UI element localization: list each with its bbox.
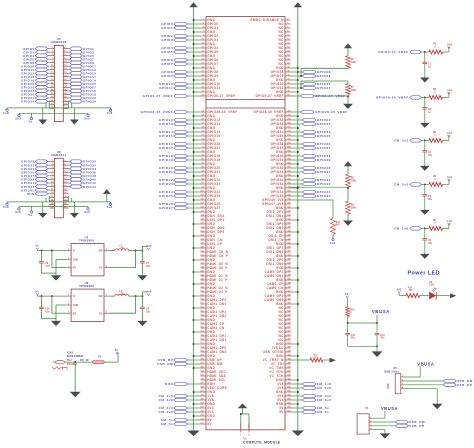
pin VC_TMS U1 right B65 [269, 366, 291, 370]
svg-text:2: 2 [370, 420, 371, 422]
svg-text:1: 1 [402, 375, 403, 377]
pin CAM0_DN1 U1 right B42 [264, 274, 291, 279]
pin GPIO28-45_VREF U1 right B1 [253, 110, 347, 114]
wire SW output node U7 [129, 246, 144, 251]
pin NC U1 right A3 [279, 26, 291, 30]
RC filter CM_1v8 R5 C6 [394, 219, 452, 254]
pin 3V3 U1 right B73 [277, 398, 331, 403]
connector U5 HDR2X18 body [51, 37, 66, 121]
pin GPIO5 U1 left A9 [161, 50, 218, 54]
svg-text:47u: 47u [428, 242, 433, 245]
pin CAM1_CP U1 left B54 [200, 322, 224, 326]
pin DSI1_DP1 U1 right B35 [266, 246, 291, 250]
pin DSI0_DP0 U1 left B31 [200, 230, 224, 234]
pin VDD_CORE U1 left B70 [200, 386, 227, 390]
svg-text:3: 3 [402, 383, 403, 385]
pin GPIO35 U1 right B7 [271, 134, 331, 139]
pin GPIO13 U1 left B4 [159, 122, 220, 126]
pin GPIO31 U1 right A18 [271, 86, 331, 90]
arrow TVDAC output [330, 358, 336, 363]
pin GPIO28-45_VREF U1 left B1 [141, 110, 238, 114]
ground arrow output U8 [137, 319, 147, 326]
svg-text:5v: 5v [29, 213, 33, 217]
svg-text:3: 3 [68, 295, 69, 297]
pin GPIO0-27_VREF U1 left A20 [143, 94, 236, 98]
pin GPIO18 U1 left B12 [159, 154, 220, 158]
svg-text:1v8: 1v8 [107, 205, 113, 209]
wire EN tie U8 [52, 296, 66, 313]
svg-text:GPIO28-45_VREF: GPIO28-45_VREF [376, 96, 409, 100]
pin GND U1 right B40 [276, 266, 299, 271]
svg-text:USB_DM: USB_DM [157, 362, 173, 366]
flag USB_DP JP1 [443, 383, 472, 387]
U1 bottom GND pins [240, 413, 250, 436]
svg-text:47u: 47u [380, 337, 385, 340]
pin row 14 U5 [21, 93, 96, 97]
pin GPIO7 U1 left A12 [161, 62, 218, 66]
svg-text:5: 5 [106, 295, 107, 297]
pin CAM1_DP3 U1 left B48 [200, 298, 226, 302]
svg-text:1v8: 1v8 [3, 205, 9, 209]
svg-text:FB: FB [99, 311, 103, 315]
pin GND U1 left B77 [193, 414, 216, 418]
pin GPIO14 U1 left B6 [159, 130, 220, 134]
pin GND U1 left B5 [193, 126, 216, 130]
svg-text:5: 5 [106, 249, 107, 251]
pin row 2 U5 [23, 50, 94, 55]
pin GND U1 left B50 [193, 306, 216, 310]
svg-text:R13: R13 [350, 309, 355, 311]
pin VC_TDI U1 right B64 [271, 362, 292, 366]
pin row 13 U6 [49, 203, 68, 205]
pin row 6 U5 [21, 64, 96, 68]
pin NC U1 right A11 [279, 58, 291, 62]
svg-text:2: 2 [68, 303, 69, 305]
pin 5V U1 right B76 [279, 410, 329, 415]
pin GPIO30 U1 right A17 [271, 82, 331, 87]
pin EMMC_DISABLE_N U1 right A1 [250, 18, 290, 22]
pin GND U1 left B65 [193, 366, 216, 370]
svg-text:5v: 5v [29, 119, 33, 123]
svg-text:VBUSA: VBUSA [417, 361, 434, 366]
pin row 18 U5 [49, 107, 68, 109]
resistor R10 0 VBUSA [345, 298, 355, 316]
pin GND U1 left B14 [193, 162, 216, 166]
pin GPIO41 U1 right B16 [271, 170, 331, 174]
svg-text:USB_DP: USB_DP [457, 383, 473, 387]
svg-text:2: 2 [248, 435, 249, 437]
svg-text:5v: 5v [345, 292, 349, 296]
pin row 9 U5 [21, 75, 96, 79]
flag USB_DM JP1 [443, 379, 473, 383]
pin NC U1 right A12 [279, 62, 291, 67]
ground arrow CN1 [70, 392, 81, 397]
connector CN1 DCBARREL [52, 351, 89, 370]
wire R7 to GPIO31 [300, 81, 348, 89]
svg-text:47u: 47u [428, 198, 433, 201]
ground arrow C2 [420, 123, 430, 128]
supply 3v3 LED [397, 289, 406, 296]
pin GPIO33 U1 right B4 [271, 122, 331, 126]
pin GND U1 right B25 [276, 206, 299, 210]
connector P1 [357, 407, 373, 434]
svg-text:3v3: 3v3 [84, 210, 90, 214]
svg-text:GPIO23: GPIO23 [159, 182, 173, 186]
svg-text:GPIO15: GPIO15 [159, 134, 173, 138]
pin GPIO42 U1 right B18 [271, 178, 331, 182]
pin HDMI_D0_N U1 left B39 [200, 262, 228, 266]
pin NC U1 right A9 [279, 50, 291, 54]
pin DSI1_CN U1 right B33 [268, 238, 291, 242]
regulator U8 TPS62202 body [66, 281, 109, 321]
pin GPIO6 U1 left A11 [161, 58, 218, 62]
pin CAM1_DN0 U1 left B61 [200, 350, 226, 354]
pin row 3 U6 [21, 167, 96, 171]
RC filter GPIO0-27_VREF R1 C1 [378, 43, 452, 78]
resistor R11 47k pull-up [331, 218, 341, 238]
pin GPIO19 U1 left B13 [159, 158, 220, 162]
pin HDMI_D0_P U1 left B40 [200, 266, 227, 270]
pin GPIO16 U1 left B9 [159, 142, 220, 146]
pin CAM1_DP1 U1 left B57 [200, 334, 226, 338]
pin TVDAC U1 right B60 [271, 346, 291, 350]
pin GND U1 left B53 [193, 318, 216, 322]
svg-text:5v: 5v [115, 348, 119, 352]
supply 5v DC input [115, 348, 119, 354]
pin NC U1 right A2 [279, 22, 291, 27]
pin GPIO28 U1 right A14 [271, 70, 331, 74]
pin GPIO37 U1 right B10 [271, 146, 331, 150]
pin CAM1_DP0 U1 left B60 [200, 346, 226, 350]
wire CN1 ground pin [74, 364, 76, 392]
svg-text:GPIO31: GPIO31 [317, 86, 331, 90]
wire CN1 to F1 [65, 361, 93, 363]
svg-text:GPIO27: GPIO27 [159, 206, 173, 210]
pin NC U1 right A6 [279, 38, 291, 42]
wire U5 pin columns to bus [46, 101, 72, 108]
pin NC U1 right B53 [279, 318, 292, 322]
pin row 15 U5 [21, 96, 96, 100]
pin DSI1_DP1 U1 right B26 [266, 210, 291, 214]
svg-text:1v8: 1v8 [3, 111, 9, 115]
pin GND U1 right A16 [276, 78, 299, 82]
pin 3V3 U1 left B75 [158, 406, 213, 410]
pin 5V U1 right B75 [279, 406, 329, 411]
ground arrow divider R8/R9 [343, 221, 353, 226]
pin GPIO11 U1 left A18 [159, 86, 220, 90]
svg-text:LED: LED [429, 285, 434, 287]
svg-text:5v: 5v [35, 244, 39, 248]
wire JP1 ground [404, 389, 437, 404]
svg-text:1v8: 1v8 [107, 111, 113, 115]
fuse F1 [93, 354, 105, 363]
pin GPIO22 U1 left B18 [159, 178, 220, 182]
regulator U7 TPS62203 body [66, 236, 109, 276]
capacitor C7 10u output U7 [140, 251, 151, 274]
pin HDMI_D2_P U1 left B46 [200, 290, 227, 294]
pin GPIO12 U1 left B3 [159, 118, 220, 122]
svg-text:C11: C11 [351, 335, 356, 337]
pin CAM0_DN0 U1 right B48 [264, 298, 291, 302]
svg-text:RUN: RUN [165, 382, 173, 386]
pin GPIO32 U1 right B3 [271, 118, 331, 122]
pin USB_DP U1 left B63 [158, 358, 222, 362]
pin GND U1 right B14 [276, 162, 299, 166]
svg-text:1: 1 [240, 435, 241, 437]
pin GPIO0 U1 left A2 [161, 22, 218, 26]
pin row 7 U6 [21, 180, 96, 185]
pin row 1 U6 [21, 160, 96, 164]
pin CAM0_CN U1 right B45 [266, 286, 291, 290]
svg-text:GPIO0-27_VREF: GPIO0-27_VREF [315, 94, 345, 98]
svg-text:Power LED: Power LED [408, 271, 441, 277]
pin GPIO15 U1 left B7 [159, 134, 220, 138]
pin GND U1 right B68 [276, 378, 299, 382]
pin CAM1_DN1 U1 left B58 [200, 338, 226, 342]
pin GPIO8 U1 left A14 [161, 70, 218, 74]
pin NC U1 right B50 [279, 306, 292, 310]
pin HDMI_CEC U1 left B66 [200, 370, 226, 374]
pin GND U1 right A13 [276, 66, 299, 70]
supply 5v VBUSA [345, 292, 349, 298]
svg-text:GPIO0-27_VREF: GPIO0-27_VREF [256, 94, 284, 98]
inductor L1 10u U7 [109, 244, 129, 250]
pin GPIO39 U1 right B13 [271, 158, 331, 162]
pin row 2 U6 [21, 163, 96, 168]
capacitor C10 4.7u input U8 [39, 296, 56, 319]
pin GND U1 left B11 [193, 150, 216, 154]
svg-text:GPIO7: GPIO7 [161, 62, 173, 66]
wire F1 to 5v [104, 352, 118, 362]
svg-text:TPS62202: TPS62202 [79, 284, 94, 288]
pin GPIO17 U1 left B10 [159, 146, 220, 150]
svg-text:GPIO44: GPIO44 [83, 185, 96, 189]
pin GND U1 left A4 [193, 30, 216, 34]
svg-text:GPIO11: GPIO11 [159, 86, 173, 90]
pin NC U1 right A4 [279, 30, 291, 34]
pin CAM0_DP0 U1 right B47 [265, 294, 292, 299]
svg-text:GPIO45: GPIO45 [317, 194, 331, 198]
resistor R14 47k LED [406, 287, 420, 297]
svg-text:GPIO19: GPIO19 [159, 158, 173, 162]
svg-text:CM_5v: CM_5v [161, 422, 173, 426]
pin DSI1_DN1 U1 right B36 [266, 250, 291, 254]
pin DSI0_CP U1 left B34 [200, 242, 222, 246]
pin GND U1 left B23 [193, 198, 216, 202]
svg-text:3: 3 [68, 249, 69, 251]
pin GND U1 right B20 [276, 186, 299, 190]
svg-text:GPIO0-27_VREF: GPIO0-27_VREF [207, 94, 235, 98]
arrow LED net [450, 293, 456, 298]
pin GND U1 right B74 [276, 402, 299, 407]
LED D1 [429, 282, 437, 299]
pin NC U1 right A10 [279, 54, 291, 58]
svg-text:GND: GND [73, 258, 79, 262]
power arrow top-right rail [294, 2, 303, 7]
svg-text:USB_DP: USB_DP [409, 424, 425, 428]
pin GPIO45 U1 right B22 [271, 194, 331, 199]
pin 1V8 U1 left B73 [158, 398, 213, 402]
pin USB_OTGID U1 right B61 [263, 350, 292, 354]
wire GND pin U7 [56, 259, 66, 273]
ground arrow C4 [420, 166, 430, 171]
flag USB_DM P1 [395, 420, 425, 424]
svg-text:VI: VI [73, 249, 76, 253]
svg-text:10u: 10u [121, 247, 126, 250]
flag USB_DP P1 [395, 424, 424, 428]
pin row 3 U5 [23, 54, 94, 58]
pin GND U1 left B62 [193, 354, 216, 358]
svg-text:GPIO17: GPIO17 [159, 146, 173, 150]
pin row 10 U5 [21, 78, 96, 82]
RC filter CM_3v3 R3 C4 [394, 131, 452, 166]
pin GPIO20 U1 left B15 [159, 166, 220, 170]
svg-text:47u: 47u [428, 154, 433, 157]
pin CAM1_DN2 U1 left B52 [200, 314, 226, 318]
wire VBUSA node [347, 315, 378, 324]
svg-text:CM_1v8: CM_1v8 [317, 386, 332, 390]
pin RUN U1 left B69 [165, 382, 215, 386]
pin GPIO21 U1 left B16 [159, 170, 220, 174]
ground arrow C1 [420, 78, 430, 83]
wire R14 to D1 [420, 295, 429, 297]
pin row 1 U5 [23, 47, 94, 51]
svg-text:10u: 10u [146, 310, 151, 313]
IC U1 COMPUTE_MODULE body [206, 17, 285, 430]
svg-text:RUN: RUN [27, 192, 35, 196]
svg-text:10u: 10u [146, 265, 151, 268]
pin CAM0_DP1 U1 right B41 [265, 270, 292, 275]
svg-text:100k: 100k [351, 90, 357, 92]
pin GPIO43 U1 right B19 [271, 182, 331, 186]
pin row 13 U5 [21, 89, 96, 93]
ground arrow C5 [420, 210, 430, 215]
ground arrow output U7 [137, 273, 147, 280]
pin DSI1_DP0 U1 right B29 [266, 222, 291, 226]
svg-text:GPIO25: GPIO25 [159, 194, 173, 198]
svg-text:3v3: 3v3 [447, 88, 452, 92]
pin GPIO3 U1 left A6 [161, 38, 218, 42]
pin GND U1 right B2 [276, 114, 299, 119]
pin NC U1 right B57 [279, 334, 292, 339]
svg-text:5v: 5v [35, 289, 39, 293]
svg-text:VBUSA: VBUSA [381, 406, 398, 411]
pin row 8 U5 [21, 71, 96, 75]
pin GND U1 left B44 [193, 282, 216, 287]
pin row 8 U6 [21, 185, 96, 189]
pin GND U1 right B46 [276, 290, 299, 294]
pin GND U1 left B71 [193, 390, 216, 394]
ground arrow VBUSA caps [372, 351, 383, 357]
svg-text:COMPUTE_MODULE: COMPUTE_MODULE [243, 440, 281, 444]
svg-text:100k: 100k [351, 62, 357, 64]
svg-text:VBUSA: VBUSA [372, 309, 390, 314]
pin row 5 U6 [21, 174, 96, 178]
wire JP1 VBUS [404, 366, 420, 377]
svg-text:GPIO24: GPIO24 [83, 100, 96, 104]
pin 3V3 U1 left B76 [158, 410, 213, 414]
svg-text:GPIO3: GPIO3 [161, 38, 173, 42]
pin NC U1 right B51 [279, 310, 292, 314]
pin CAM1_DP2 U1 left B51 [200, 310, 226, 314]
wire P1 D- D+ [373, 422, 396, 426]
pin DSI0_DP1 U1 left B28 [200, 218, 224, 222]
svg-text:HDR2X18: HDR2X18 [51, 40, 66, 44]
pin GND U1 left A1 [193, 18, 216, 22]
pin DSI0_DN0 U1 left B30 [200, 226, 224, 230]
GND rail left of U1 [193, 6, 195, 430]
svg-text:3v3: 3v3 [447, 43, 452, 47]
capacitor C9 4.7u input U7 [39, 251, 56, 274]
connector U6 HDR2X14 body [51, 150, 66, 218]
ground arrow JP1 [432, 404, 443, 409]
svg-text:4: 4 [402, 386, 403, 389]
pin HDMI_SDA U1 left B67 [200, 374, 226, 378]
svg-text:GPIO5: GPIO5 [161, 50, 173, 54]
ground arrow divider R6/R7 [343, 104, 353, 109]
svg-text:1: 1 [68, 266, 69, 268]
svg-text:100k: 100k [351, 180, 357, 182]
pin GND U1 left B29 [193, 222, 216, 226]
svg-text:3v3: 3v3 [15, 210, 21, 214]
wire JP1 D- D+ [404, 381, 443, 385]
svg-text:GPIO0-27_VREF: GPIO0-27_VREF [378, 50, 408, 54]
pin DSI0_CN U1 left B33 [200, 238, 223, 242]
svg-text:GPIO0-27_VREF: GPIO0-27_VREF [143, 94, 173, 98]
pin GND U1 left B20 [193, 186, 216, 190]
pin GND U1 left B47 [193, 294, 216, 298]
svg-text:1: 1 [68, 312, 69, 314]
capacitor C12 47u [375, 323, 386, 346]
pin GND U1 right B17 [276, 174, 299, 179]
GND rail right of U1 [297, 6, 299, 430]
svg-text:3v3: 3v3 [447, 131, 452, 135]
pin GND U1 right B43 [276, 278, 299, 283]
svg-text:CM_3v3: CM_3v3 [317, 398, 332, 402]
svg-text:HDR2X14: HDR2X14 [51, 153, 66, 157]
wire TVDAC to R12 [291, 359, 311, 361]
pin GND U1 left B17 [193, 174, 216, 178]
RC filter CM_3v3 R4 C5 [394, 175, 452, 210]
svg-text:USB: USB [386, 383, 390, 389]
pin NC U1 right B55 [279, 326, 292, 330]
svg-text:CM_1v8: CM_1v8 [394, 227, 409, 231]
pin GPIO10 U1 left A17 [159, 82, 220, 86]
svg-text:4: 4 [370, 427, 371, 430]
pin GND U1 right B59 [276, 342, 299, 346]
pin GND U1 left A16 [193, 78, 216, 82]
pin row 5 U5 [23, 61, 94, 65]
svg-text:GPIO37: GPIO37 [317, 146, 331, 150]
svg-text:GPIO35: GPIO35 [317, 134, 331, 138]
pin row 12 U6 [49, 198, 68, 201]
pin GPIO44 U1 right B21 [271, 190, 331, 194]
svg-text:VI: VI [73, 294, 76, 298]
wire 5v to VI U8 [37, 295, 66, 297]
pin GND U1 right A19 [276, 90, 299, 94]
pin GND U1 right B8 [276, 138, 299, 142]
svg-text:GPIO43: GPIO43 [317, 182, 331, 186]
svg-text:GPIO41: GPIO41 [317, 170, 331, 174]
pin GND U1 left B56 [193, 330, 216, 334]
svg-text:3v3: 3v3 [447, 175, 452, 179]
pin 5V U1 left B79 [161, 422, 213, 426]
pin CAM1_CN U1 left B55 [200, 326, 225, 330]
pin GPIO4 U1 left A8 [161, 46, 218, 50]
pin GPIO38 U1 right B12 [271, 154, 331, 159]
svg-text:2: 2 [68, 258, 69, 260]
capacitor C11 47u [345, 323, 356, 346]
